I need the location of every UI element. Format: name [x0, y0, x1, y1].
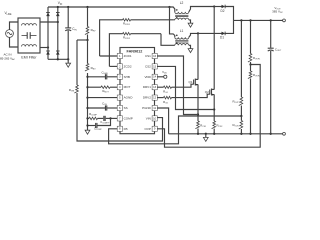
- resistor R_OUT1: [232, 20, 242, 116]
- pin 5 AGND: [117, 95, 133, 100]
- svg-text:FAN9612: FAN9612: [127, 49, 143, 53]
- pin 16 CS1: [145, 53, 157, 58]
- capacitor C_COMP,P: [100, 116, 117, 124]
- resistor R_G2: [157, 94, 210, 104]
- wire OVP to OVP divider: [157, 65, 260, 148]
- resistor R_ZCD1: [100, 19, 174, 56]
- capacitor C_SHB: [88, 70, 118, 79]
- wire Q1 source: [197, 84, 199, 121]
- wire Q2 drain: [213, 7, 215, 90]
- wire Q2 source: [213, 94, 215, 121]
- svg-text:13: 13: [153, 85, 157, 89]
- pin 7 COMP: [117, 116, 133, 121]
- wire PGND: [157, 108, 169, 134]
- op-amp U1 FAN9612 controller box: [120, 48, 155, 134]
- pin 9 OVP: [144, 126, 157, 131]
- wire V_IN to L1 primary: [170, 7, 175, 37]
- wire VIN sense route: [76, 40, 78, 85]
- resistor R_VIN: [69, 85, 78, 93]
- diode D2: [214, 5, 233, 21]
- svg-text:CS1: CS1: [145, 54, 151, 58]
- capacitor C_IN: [65, 7, 77, 59]
- wire L1 primary to D1 node: [189, 32, 199, 37]
- wire Q1 drain: [197, 33, 199, 79]
- AC source V_AC: [6, 30, 14, 38]
- resistor R_CS1: [195, 121, 206, 134]
- bridge diode top-right: [56, 13, 60, 17]
- wire R_ZCD2 to L1 aux: [161, 34, 175, 46]
- transistor Q1: [189, 79, 198, 86]
- ground L2 aux: [188, 20, 193, 27]
- svg-text:10: 10: [153, 116, 157, 120]
- pin 3 SHB: [117, 74, 130, 79]
- wire FB to output divider: [109, 116, 242, 144]
- svg-text:Q2: Q2: [205, 90, 209, 94]
- pin 13 DRV1: [143, 85, 157, 90]
- pin 15 CS2: [145, 64, 157, 69]
- transistor Q2: [205, 89, 214, 96]
- svg-text:DRV1: DRV1: [143, 85, 151, 89]
- wire V_IN to L2 primary: [170, 7, 175, 12]
- resistor R_COMP: [88, 112, 104, 120]
- resistor R_HV2: [85, 40, 96, 71]
- svg-text:12: 12: [153, 96, 157, 100]
- svg-text:SS: SS: [124, 106, 128, 110]
- svg-text:D1: D1: [220, 36, 224, 40]
- svg-text:D2: D2: [220, 9, 224, 13]
- capacitor C_SS: [88, 102, 118, 111]
- inductor L2: [175, 1, 189, 20]
- svg-text:PGND: PGND: [142, 106, 152, 110]
- terminal output return: [283, 132, 286, 135]
- bridge leg 1 wire: [47, 7, 49, 59]
- svg-text:AGND: AGND: [124, 96, 134, 100]
- resistor R_OVP2: [248, 65, 260, 134]
- ground symbol main rail: [203, 134, 208, 142]
- wire EMI top output to bridge: [40, 21, 59, 23]
- svg-text:15: 15: [153, 64, 157, 68]
- wire VIN sense route lower: [77, 93, 163, 141]
- svg-text:16: 16: [153, 54, 157, 58]
- node V_OUT label: [272, 6, 283, 14]
- svg-text:ZCD1: ZCD1: [124, 54, 132, 58]
- pin 12 DRV2: [143, 95, 157, 100]
- capacitor C_COMP: [86, 118, 110, 131]
- node FB divider tap: [240, 115, 242, 117]
- wire V_IN rail: [48, 6, 171, 8]
- terminal V_OUT: [283, 19, 286, 22]
- ground L1 aux: [188, 45, 193, 52]
- wire CS2 to Q2 source: [157, 66, 214, 109]
- wire AC source bottom to EMI filter: [10, 37, 19, 47]
- analog ground column wire: [86, 73, 88, 130]
- svg-text:MOT: MOT: [124, 85, 131, 89]
- svg-text:L2: L2: [180, 1, 184, 5]
- resistor R_OUT2: [232, 116, 242, 134]
- svg-text:Q1: Q1: [189, 80, 193, 84]
- bridge diode top-left: [46, 13, 50, 17]
- node V_IN label: [58, 1, 63, 6]
- svg-text:SHB: SHB: [124, 75, 130, 79]
- svg-text:11: 11: [153, 106, 156, 110]
- pin 10 VIN: [146, 116, 157, 121]
- svg-text:L1: L1: [180, 29, 184, 33]
- node R_HV tap to VIN sense: [77, 39, 89, 41]
- svg-text:EMI Filter: EMI Filter: [21, 55, 37, 59]
- bridge leg 2 wire: [57, 7, 59, 59]
- terminal V_DD: [157, 70, 167, 78]
- wire L2 primary to D2 node: [189, 5, 216, 12]
- inductor L1: [175, 29, 189, 46]
- wire AGND pin: [88, 97, 118, 99]
- svg-text:14: 14: [153, 75, 157, 79]
- svg-text:VDD: VDD: [144, 75, 151, 79]
- pin 8 FB: [117, 126, 127, 131]
- output rail wire: [234, 19, 283, 21]
- svg-text:DRV2: DRV2: [143, 96, 151, 100]
- pin 14 VDD: [144, 74, 157, 79]
- pin 4 MOT: [117, 85, 130, 90]
- resistor R_MOT: [88, 86, 118, 94]
- ground rail wire: [169, 133, 283, 135]
- pin 6 SS: [117, 105, 127, 110]
- pin 1 ZCD1: [117, 53, 132, 58]
- ground below C_IN: [66, 59, 71, 67]
- wire R_ZCD1 to L2 aux: [173, 19, 175, 21]
- diode D1: [198, 20, 234, 39]
- pin 11 PGND: [142, 105, 157, 110]
- svg-text:FB: FB: [124, 127, 128, 131]
- svg-text:OVP: OVP: [144, 127, 150, 131]
- pin 2 ZCD2: [117, 64, 132, 69]
- wire EMI bottom output to bridge: [40, 46, 49, 48]
- svg-text:CS2: CS2: [145, 64, 151, 68]
- wire AC source top to EMI filter: [10, 22, 19, 30]
- resistor R_CS2: [212, 121, 223, 134]
- EMI filter block: [18, 18, 40, 59]
- ground analog column: [85, 130, 90, 134]
- capacitor C_OUT: [268, 20, 282, 133]
- svg-text:VIN: VIN: [146, 116, 151, 120]
- wire CS1 to Q1 source: [157, 56, 198, 115]
- bridge diode bottom-left: [46, 51, 50, 55]
- bridge diode bottom-right: [56, 51, 60, 55]
- resistor R_HV: [85, 7, 96, 40]
- wire ZCD1 pin: [100, 55, 118, 57]
- node OVP divider tap: [249, 63, 251, 65]
- svg-text:COMP: COMP: [124, 116, 133, 120]
- svg-text:ZCD2: ZCD2: [124, 64, 132, 68]
- AC IN label: [0, 52, 16, 61]
- node V_LINE label: [4, 11, 12, 16]
- resistor R_G1: [157, 84, 194, 94]
- node COMP junction: [109, 117, 111, 119]
- resistor R_OVP1: [248, 20, 260, 64]
- wire ZCD2 pin: [109, 65, 117, 67]
- resistor R_ZCD2: [109, 32, 161, 66]
- bridge bottom wire: [48, 58, 69, 60]
